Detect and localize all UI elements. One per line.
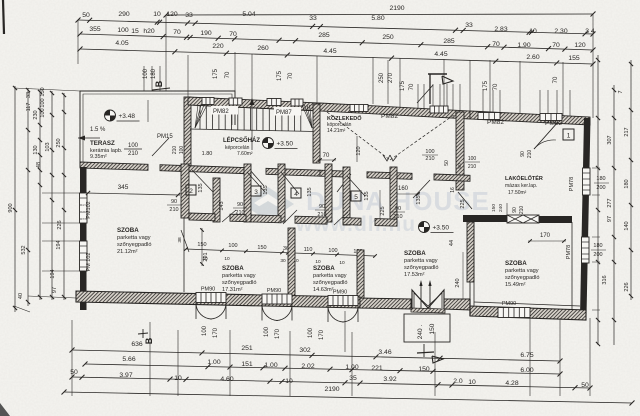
svg-text:5: 5 <box>354 194 358 201</box>
svg-text:175: 175 <box>213 68 219 79</box>
svg-text:70: 70 <box>229 31 237 38</box>
svg-text:70: 70 <box>492 41 500 48</box>
svg-text:B: B <box>154 80 164 87</box>
svg-text:PM82: PM82 <box>381 113 398 120</box>
svg-text:170: 170 <box>540 233 551 239</box>
svg-text:10: 10 <box>224 256 230 262</box>
svg-text:17.50m²: 17.50m² <box>508 190 527 196</box>
stairwell west wall (hatched) <box>184 97 191 167</box>
scan smudge bottom-left corner <box>0 403 10 416</box>
svg-text:B: B <box>144 337 154 344</box>
stair north wall <box>188 97 320 111</box>
svg-text:14.21m²: 14.21m² <box>327 128 346 134</box>
svg-text:38: 38 <box>177 237 183 243</box>
top overall dimension 2190 <box>166 14 593 15</box>
svg-text:+3.50: +3.50 <box>277 141 294 148</box>
svg-text:180: 180 <box>151 68 157 79</box>
svg-text:100: 100 <box>228 243 237 249</box>
room3/4 dividing wall <box>357 250 364 306</box>
svg-text:15.49m²: 15.49m² <box>505 282 526 288</box>
svg-text:140: 140 <box>624 221 630 230</box>
svg-text:210: 210 <box>128 151 139 157</box>
extension line ladder near section A <box>417 84 419 111</box>
svg-text:240: 240 <box>455 278 461 287</box>
svg-text:szőnyegpadló: szőnyegpadló <box>117 242 152 248</box>
svg-text:50: 50 <box>444 160 450 166</box>
entry door diagonal <box>458 192 472 209</box>
bottom dimension row 4 overall <box>64 392 632 403</box>
svg-text:100: 100 <box>468 156 477 162</box>
bottom dimension row 1 <box>72 350 560 361</box>
svg-text:270: 270 <box>388 72 394 83</box>
entrance section south wall <box>360 298 411 309</box>
svg-text:210: 210 <box>468 164 477 170</box>
svg-text:345: 345 <box>118 184 129 191</box>
door swing arrows <box>420 282 422 308</box>
svg-text:143: 143 <box>219 201 225 210</box>
svg-text:1.00: 1.00 <box>345 364 358 371</box>
svg-text:90: 90 <box>237 202 243 208</box>
svg-text:TERASZ: TERASZ <box>90 140 115 147</box>
svg-text:150: 150 <box>491 204 497 212</box>
svg-text:175: 175 <box>483 80 489 91</box>
svg-text:40: 40 <box>18 293 24 299</box>
svg-text:150: 150 <box>257 245 266 251</box>
watermark duna house logo diamond <box>242 187 294 221</box>
svg-text:155: 155 <box>568 55 580 62</box>
svg-text:9.35m²: 9.35m² <box>90 154 107 160</box>
cluster bottom wall <box>189 213 215 221</box>
svg-text:90: 90 <box>512 207 518 213</box>
level mark +3.50 room4 <box>419 222 430 233</box>
section marker A top <box>428 73 447 75</box>
svg-text:194: 194 <box>56 240 62 249</box>
svg-text:PM102: PM102 <box>86 201 92 218</box>
stair labels PM82 PM87 <box>211 106 238 115</box>
svg-text:290: 290 <box>118 11 130 18</box>
svg-text:90: 90 <box>319 204 325 210</box>
svg-text:251: 251 <box>241 345 253 352</box>
hall south wall segments with door openings <box>320 170 345 177</box>
svg-text:parketta vagy: parketta vagy <box>404 258 438 264</box>
svg-text:180: 180 <box>593 243 602 249</box>
svg-text:70: 70 <box>553 76 559 83</box>
svg-text:117: 117 <box>26 103 32 112</box>
svg-text:SZOBA: SZOBA <box>117 227 139 234</box>
svg-text:97: 97 <box>607 216 613 222</box>
svg-text:170: 170 <box>319 329 325 340</box>
svg-text:210: 210 <box>519 206 525 215</box>
svg-text:160: 160 <box>398 186 409 192</box>
svg-text:302: 302 <box>299 347 311 354</box>
svg-text:SZOBA: SZOBA <box>404 250 426 257</box>
svg-text:7.60m²: 7.60m² <box>237 151 253 157</box>
svg-text:parketta vagy: parketta vagy <box>222 273 256 279</box>
small rooms cluster walls <box>213 178 220 222</box>
door arcs outside french doors <box>196 303 212 319</box>
svg-text:120: 120 <box>574 42 586 49</box>
svg-text:3.97: 3.97 <box>119 372 132 379</box>
svg-text:17.53m²: 17.53m² <box>404 272 425 278</box>
svg-text:4.60: 4.60 <box>220 376 233 383</box>
svg-text:h20: h20 <box>143 28 155 35</box>
right connectors <box>592 167 600 169</box>
scan edge artifact top-left <box>3 0 4 34</box>
hall (kozlekedo) north wall <box>320 103 470 119</box>
svg-text:6.75: 6.75 <box>520 352 533 359</box>
svg-text:4.45: 4.45 <box>434 51 447 58</box>
svg-text:150: 150 <box>429 323 436 334</box>
svg-text:33: 33 <box>465 22 473 29</box>
svg-text:PM90: PM90 <box>267 288 281 294</box>
svg-text:100: 100 <box>143 68 149 79</box>
svg-text:3: 3 <box>254 189 258 196</box>
west exterior wall <box>80 167 87 310</box>
svg-text:1.90: 1.90 <box>517 42 530 49</box>
svg-text:285: 285 <box>318 32 330 39</box>
svg-text:135: 135 <box>198 183 204 192</box>
bottom dimension row 3 <box>72 377 590 388</box>
svg-text:mázas ker.lap.: mázas ker.lap. <box>505 183 537 189</box>
svg-text:2.30: 2.30 <box>554 28 567 35</box>
svg-text:2.83: 2.83 <box>494 26 507 33</box>
svg-text:70: 70 <box>409 83 415 90</box>
svg-text:1.80: 1.80 <box>202 151 213 157</box>
stair winder fans <box>195 105 198 128</box>
right dimension chains <box>597 55 599 345</box>
svg-text:50: 50 <box>457 163 463 169</box>
svg-text:135: 135 <box>416 195 422 204</box>
svg-text:100: 100 <box>202 325 208 336</box>
top dimension row A <box>78 20 593 34</box>
top dimension row B <box>80 34 593 50</box>
svg-text:4.05: 4.05 <box>115 40 128 47</box>
svg-text:10: 10 <box>285 378 293 385</box>
svg-text:130: 130 <box>33 145 39 154</box>
svg-text:100: 100 <box>117 27 129 34</box>
svg-text:3 4: 3 4 <box>585 28 595 35</box>
svg-text:285: 285 <box>443 38 455 45</box>
svg-text:250: 250 <box>382 34 394 41</box>
svg-text:5.66: 5.66 <box>122 356 135 363</box>
svg-text:250: 250 <box>56 138 62 147</box>
numbered room tags <box>186 185 196 195</box>
svg-text:210: 210 <box>169 207 178 213</box>
svg-text:225: 225 <box>460 199 466 208</box>
svg-text:parketta vagy: parketta vagy <box>505 268 539 274</box>
svg-text:355: 355 <box>89 26 101 33</box>
svg-text:PM78: PM78 <box>569 177 575 191</box>
room1 east wall hatched <box>181 164 189 218</box>
svg-text:150: 150 <box>418 366 430 373</box>
svg-text:PM82: PM82 <box>213 109 229 115</box>
svg-text:70: 70 <box>493 83 499 90</box>
svg-text:240: 240 <box>498 204 504 212</box>
svg-text:6.00: 6.00 <box>520 367 533 374</box>
svg-text:210: 210 <box>527 150 533 159</box>
svg-text:LÉPCSŐHÁZ: LÉPCSŐHÁZ <box>223 136 260 144</box>
svg-text:2190: 2190 <box>389 5 404 12</box>
entrance threshold hatched <box>411 308 445 313</box>
svg-text:parketta vagy: parketta vagy <box>313 273 347 279</box>
terrace outline <box>80 91 235 167</box>
svg-text:210: 210 <box>235 210 244 216</box>
svg-text:100: 100 <box>264 326 270 337</box>
cluster door diagonals <box>222 210 236 222</box>
svg-text:277: 277 <box>607 198 613 207</box>
right wing north wall <box>470 111 590 125</box>
svg-text:SZOBA: SZOBA <box>313 265 335 272</box>
svg-text:PM15: PM15 <box>157 134 173 140</box>
svg-text:33: 33 <box>309 15 317 22</box>
entrance double door M symbol <box>412 290 444 308</box>
svg-text:180: 180 <box>596 176 605 182</box>
svg-text:100: 100 <box>40 98 46 107</box>
door leaf diagonals on south wall <box>250 170 264 186</box>
room4/5 dividing wall <box>467 222 474 282</box>
svg-text:PM90: PM90 <box>201 287 215 293</box>
svg-text:PM90: PM90 <box>502 301 516 307</box>
svg-text:10: 10 <box>529 28 537 35</box>
room2/3 dividing wall <box>288 228 295 298</box>
svg-text:parketta vagy: parketta vagy <box>117 235 151 241</box>
svg-text:szőnyegpadló: szőnyegpadló <box>222 280 257 286</box>
svg-text:szőnyegpadló: szőnyegpadló <box>404 265 439 271</box>
top dimension row C <box>80 49 593 64</box>
svg-text:110: 110 <box>304 247 313 253</box>
svg-text:135: 135 <box>263 185 269 194</box>
svg-text:35: 35 <box>349 375 357 382</box>
svg-text:4: 4 <box>294 191 298 198</box>
svg-text:636: 636 <box>131 341 143 348</box>
svg-text:170: 170 <box>213 327 219 338</box>
svg-text:200: 200 <box>593 252 602 258</box>
stair/hall dividing wall <box>313 104 320 163</box>
svg-text:PM78: PM78 <box>566 245 572 259</box>
svg-text:33: 33 <box>185 12 193 19</box>
svg-text:4.28: 4.28 <box>505 380 518 387</box>
svg-text:szőnyegpadló: szőnyegpadló <box>505 275 540 281</box>
svg-text:14.63m²: 14.63m² <box>313 287 334 293</box>
svg-text:3.46: 3.46 <box>378 349 391 356</box>
svg-text:100: 100 <box>328 248 337 254</box>
east exterior wall <box>580 118 591 316</box>
svg-text:307: 307 <box>607 135 613 144</box>
svg-text:100: 100 <box>128 143 139 149</box>
svg-text:70: 70 <box>225 71 231 78</box>
section marker A bottom <box>423 344 425 357</box>
glazed door X symbol <box>507 215 539 223</box>
svg-text:44: 44 <box>449 240 455 246</box>
svg-text:221: 221 <box>371 365 383 372</box>
svg-text:7: 7 <box>618 90 624 93</box>
windows PM90 in south wall <box>196 293 226 303</box>
svg-text:2190: 2190 <box>324 386 339 393</box>
svg-text:48: 48 <box>36 162 42 168</box>
svg-text:PM90: PM90 <box>333 290 347 296</box>
svg-text:PM87: PM87 <box>276 110 292 116</box>
svg-text:532: 532 <box>21 245 27 254</box>
svg-text:70: 70 <box>323 153 330 159</box>
svg-text:260: 260 <box>257 45 269 52</box>
svg-text:190: 190 <box>200 30 212 37</box>
interior dim row mid <box>186 249 375 256</box>
svg-text:240 .: 240 . <box>417 325 424 340</box>
level mark +3.48 terrace <box>105 110 116 121</box>
svg-text:90: 90 <box>395 206 401 212</box>
svg-text:3.92: 3.92 <box>383 376 396 383</box>
top extension lines <box>77 20 79 64</box>
svg-text:10: 10 <box>202 256 208 262</box>
svg-text:135: 135 <box>307 187 313 196</box>
stair treads <box>199 106 201 130</box>
stair up arrow <box>251 100 253 150</box>
south exterior wall left section <box>76 291 360 308</box>
svg-text:10: 10 <box>153 11 161 18</box>
svg-text:90: 90 <box>520 151 526 157</box>
svg-text:50: 50 <box>70 369 78 376</box>
svg-text:316: 316 <box>602 275 608 284</box>
svg-text:15: 15 <box>131 28 139 35</box>
svg-text:210: 210 <box>317 212 326 218</box>
keyplan box 1 <box>563 129 574 140</box>
svg-text:226: 226 <box>624 282 630 291</box>
svg-text:103: 103 <box>45 142 51 151</box>
svg-text:100: 100 <box>308 327 314 338</box>
entrance landing <box>404 314 450 342</box>
svg-text:100: 100 <box>425 149 434 155</box>
svg-text:225: 225 <box>380 206 386 215</box>
right wing inner lines <box>473 222 475 306</box>
svg-text:2.60: 2.60 <box>526 54 539 61</box>
svg-text:210: 210 <box>393 214 402 220</box>
svg-text:21.12m²: 21.12m² <box>117 249 138 255</box>
svg-text:226: 226 <box>57 220 63 229</box>
svg-text:70: 70 <box>288 72 294 79</box>
svg-text:2.0: 2.0 <box>453 378 463 385</box>
svg-text:4.45: 4.45 <box>323 48 336 55</box>
LAKOELOTER south wall <box>463 215 507 222</box>
svg-text:210: 210 <box>172 146 178 155</box>
svg-text:5.80: 5.80 <box>371 15 384 22</box>
svg-text:5.04: 5.04 <box>242 11 255 18</box>
svg-text:200: 200 <box>596 185 605 191</box>
svg-text:16: 16 <box>450 187 456 193</box>
svg-text:50: 50 <box>82 12 90 19</box>
svg-text:135: 135 <box>364 191 370 200</box>
left dimension chains <box>14 86 16 312</box>
svg-text:100: 100 <box>40 108 46 117</box>
svg-text:PM 102: PM 102 <box>86 253 92 272</box>
svg-text:97: 97 <box>52 287 58 293</box>
svg-text:70: 70 <box>552 42 560 49</box>
svg-text:10: 10 <box>174 375 182 382</box>
svg-text:1.00: 1.00 <box>264 362 277 369</box>
svg-text:10: 10 <box>468 379 476 386</box>
bottom extension lines <box>71 320 73 396</box>
svg-text:220: 220 <box>212 43 224 50</box>
svg-text:2.02: 2.02 <box>301 363 314 370</box>
svg-text:150: 150 <box>197 242 206 248</box>
svg-text:PM82: PM82 <box>545 120 562 127</box>
south exterior wall right section <box>470 306 586 320</box>
svg-text:120: 120 <box>166 11 178 18</box>
bottom dimension row 2 <box>85 364 560 374</box>
svg-text:217: 217 <box>624 127 630 136</box>
svg-text:170: 170 <box>275 328 281 339</box>
svg-text:+3.50: +3.50 <box>433 225 450 232</box>
hall/entry hall dividing wall <box>456 112 464 190</box>
svg-text:180: 180 <box>624 179 630 188</box>
svg-text:250: 250 <box>379 72 385 83</box>
svg-text:33: 33 <box>26 92 32 98</box>
svg-text:210: 210 <box>425 156 434 162</box>
svg-text:900: 900 <box>8 203 14 212</box>
svg-text:SZOBA: SZOBA <box>222 265 244 272</box>
svg-text:230: 230 <box>33 110 39 119</box>
svg-text:+3.48: +3.48 <box>119 113 136 120</box>
svg-text:LAKÓELŐTÉR: LAKÓELŐTÉR <box>505 174 543 182</box>
svg-text:1.00: 1.00 <box>207 359 220 366</box>
svg-text:2: 2 <box>189 188 193 195</box>
svg-text:30: 30 <box>280 258 286 264</box>
svg-text:PM82: PM82 <box>487 119 504 126</box>
svg-text:175: 175 <box>400 80 406 91</box>
main north-zone south wall <box>80 162 148 170</box>
left block horizontal connectors <box>14 88 80 91</box>
svg-text:szőnyegpadló: szőnyegpadló <box>313 280 348 286</box>
svg-text:50: 50 <box>581 382 589 389</box>
svg-text:70: 70 <box>173 29 181 36</box>
svg-text:90: 90 <box>171 199 177 205</box>
svg-text:150: 150 <box>40 87 46 96</box>
svg-text:175: 175 <box>277 70 283 81</box>
level mark +3.50 stairwell <box>263 138 274 149</box>
ceiling slope dashed V <box>327 112 390 160</box>
svg-text:151: 151 <box>241 361 253 368</box>
svg-text:1: 1 <box>567 133 571 140</box>
svg-text:SZOBA: SZOBA <box>505 260 527 267</box>
svg-text:10: 10 <box>339 260 345 266</box>
svg-text:1.5 %: 1.5 % <box>90 127 106 133</box>
